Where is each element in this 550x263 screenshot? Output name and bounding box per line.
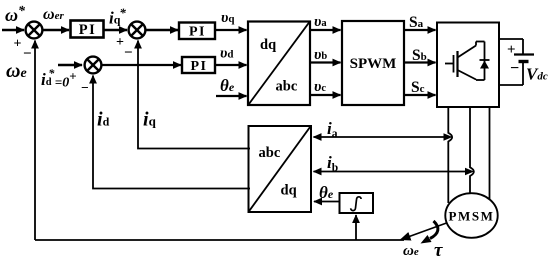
block abc->dq transform bbox=[249, 126, 312, 212]
svg-text:abc: abc bbox=[259, 145, 281, 161]
svg-text:υd: υd bbox=[220, 46, 233, 62]
svg-text:PMSM: PMSM bbox=[448, 209, 494, 224]
wire: omega_e branch up to integrator bbox=[355, 215, 357, 240]
wire: va to SPWM bbox=[310, 29, 341, 31]
svg-text:PI: PI bbox=[191, 59, 208, 74]
summing junction S2 bbox=[129, 22, 146, 39]
wire: integrator to abc-dq block bbox=[314, 201, 340, 203]
block dq->abc transform bbox=[248, 22, 310, 106]
svg-text:−: − bbox=[510, 60, 519, 77]
block inverter bbox=[437, 23, 499, 108]
wire: inverter phase a lead bbox=[448, 107, 452, 203]
wire: omega_e feedback diagonal from motor bbox=[401, 223, 447, 240]
diode arrow (filled) bbox=[480, 61, 489, 69]
svg-text:+: + bbox=[116, 35, 124, 50]
svg-text:−: − bbox=[124, 45, 133, 61]
wire: omega* input arrow bbox=[2, 29, 24, 32]
summing junction S3 bbox=[85, 57, 102, 74]
transistor IGBT with diode inside inverter bbox=[445, 42, 490, 81]
wire: Sc to inverter bbox=[404, 94, 436, 96]
wire: vb to SPWM bbox=[310, 61, 341, 63]
torque tau arrow bbox=[430, 221, 438, 239]
block SPWM bbox=[342, 21, 404, 105]
wire: inverter phase b lead bbox=[470, 107, 474, 195]
wire: ia sense line bbox=[314, 136, 448, 138]
battery Vdc bbox=[499, 39, 534, 85]
svg-text:abc: abc bbox=[276, 79, 298, 95]
svg-text:dq: dq bbox=[260, 37, 276, 53]
wire: PI2 to dq-abc block bbox=[215, 29, 247, 31]
wire: iq feedback bbox=[138, 41, 250, 149]
svg-text:+: + bbox=[14, 37, 22, 52]
wire: theta_e stub into dq-abc block bbox=[216, 95, 247, 97]
arrowhead at ib tap bbox=[465, 168, 474, 175]
wire: PI3 to dq-abc block bbox=[215, 64, 247, 66]
wire: id* reference stub bbox=[58, 64, 82, 67]
arrowhead at ia tap bbox=[444, 133, 453, 140]
PI controller PI1 bbox=[71, 21, 104, 38]
svg-text:PI: PI bbox=[189, 25, 206, 40]
svg-text:SPWM: SPWM bbox=[350, 56, 397, 72]
motor PMSM bbox=[445, 193, 497, 238]
wire: vc to SPWM bbox=[310, 94, 341, 96]
PI controller PI3 bbox=[182, 57, 215, 73]
svg-text:ωe: ωe bbox=[403, 243, 419, 259]
wire: S3 to PI3 bbox=[102, 64, 181, 66]
svg-text:τ: τ bbox=[434, 240, 443, 261]
PI controller PI2 bbox=[179, 23, 215, 40]
svg-text:+: + bbox=[507, 42, 516, 58]
svg-text:υq: υq bbox=[221, 10, 235, 26]
integrator block bbox=[340, 193, 374, 213]
summing junction S1 bbox=[26, 22, 43, 39]
wire: S1 to PI1 bbox=[43, 29, 69, 32]
wire: id feedback bbox=[93, 76, 250, 189]
wire: Sa to inverter bbox=[404, 29, 436, 31]
wire: omega_e feedback vertical to S1 bbox=[34, 41, 36, 241]
wire: PI1 to S2 bbox=[104, 29, 128, 32]
wire: inverter phase c lead bbox=[489, 107, 491, 200]
wire: omega_e feedback horizontal bbox=[35, 239, 404, 241]
wire: ib sense line bbox=[314, 171, 470, 173]
svg-text:−: − bbox=[81, 80, 89, 95]
wire: S2 to PI2 bbox=[146, 29, 178, 32]
svg-text:−: − bbox=[23, 46, 32, 62]
svg-text:dq: dq bbox=[281, 183, 297, 199]
wire: Sb to inverter bbox=[404, 61, 436, 63]
svg-text:PI: PI bbox=[79, 22, 97, 38]
